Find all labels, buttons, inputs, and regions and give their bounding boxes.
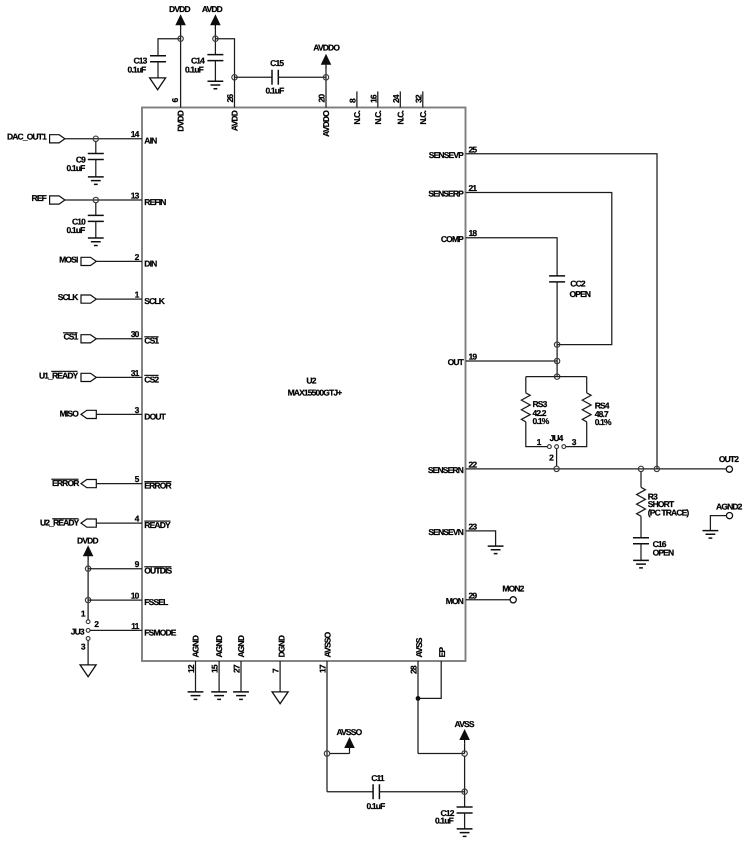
wire DVDD to JU3 pin 1 bbox=[87, 558, 89, 620]
wire REFIN net bbox=[65, 199, 142, 201]
wire AVSSO branch to power flag bbox=[330, 753, 350, 755]
node SCLK bbox=[58, 292, 97, 303]
svg-text:DVDD: DVDD bbox=[176, 110, 186, 131]
pin 25 SENSEVP bbox=[429, 144, 478, 160]
svg-text:AGND: AGND bbox=[190, 635, 200, 657]
junction SENSERN/SENSEVP bbox=[654, 466, 659, 471]
pin 9 OUTDIS bbox=[135, 559, 173, 576]
svg-text:AIN: AIN bbox=[144, 136, 157, 146]
svg-text:SCLK: SCLK bbox=[58, 292, 79, 302]
capacitor C12 bbox=[435, 807, 473, 826]
pin 18 COMP bbox=[441, 228, 477, 244]
svg-text:AGND: AGND bbox=[236, 635, 246, 657]
capacitor C14 bbox=[185, 55, 223, 75]
node CS1 (active low) bbox=[63, 332, 96, 343]
svg-text:N.C.: N.C. bbox=[418, 111, 428, 125]
capacitor C9 bbox=[67, 154, 104, 174]
wire ERROR net bbox=[96, 483, 142, 485]
svg-text:FSSEL: FSSEL bbox=[144, 597, 168, 607]
svg-text:AVSSO: AVSSO bbox=[336, 727, 362, 737]
junction OUT node bbox=[554, 358, 559, 363]
svg-text:25: 25 bbox=[469, 144, 478, 154]
resistor RS4 bbox=[582, 393, 612, 427]
pin 21 SENSERP bbox=[428, 183, 477, 199]
junction REFIN/C10 bbox=[93, 197, 98, 202]
svg-text:FSMODE: FSMODE bbox=[144, 628, 176, 638]
wire FSSEL net bbox=[88, 599, 142, 601]
pin 14 AIN bbox=[131, 129, 157, 146]
pin 30 CS1 bbox=[131, 329, 160, 346]
power flag AVDD (top) bbox=[202, 4, 223, 29]
svg-text:OPEN: OPEN bbox=[570, 289, 591, 299]
junction CC2/SENSERP node bbox=[554, 342, 559, 347]
pin 15 AGND bbox=[210, 635, 224, 692]
resistor RS3 bbox=[521, 393, 549, 426]
wire READY net bbox=[96, 522, 142, 524]
svg-text:CC2: CC2 bbox=[570, 278, 586, 288]
ground (3-bar) AGND2 bbox=[703, 531, 719, 539]
node MISO bbox=[60, 408, 97, 418]
svg-text:0.1%: 0.1% bbox=[595, 417, 612, 427]
svg-text:U2: U2 bbox=[306, 376, 316, 386]
svg-text:19: 19 bbox=[469, 352, 478, 362]
svg-text:MON2: MON2 bbox=[502, 584, 524, 594]
wire SENSERN net bbox=[466, 468, 727, 470]
junction AVSS node bbox=[462, 751, 467, 756]
svg-text:JU3: JU3 bbox=[71, 627, 85, 637]
node MON2 bbox=[502, 584, 524, 603]
ground (3-bar) pin 12 bbox=[188, 692, 204, 700]
wire DVDD net to pin 6 bbox=[180, 27, 182, 108]
junction AIN/C9 bbox=[93, 136, 98, 141]
pin 28 AVSS bbox=[409, 637, 424, 674]
node U1_READY bbox=[39, 370, 96, 381]
svg-text:20: 20 bbox=[317, 94, 327, 103]
svg-text:DIN: DIN bbox=[144, 258, 157, 268]
wire C10 lead bbox=[95, 203, 97, 238]
svg-text:10: 10 bbox=[131, 591, 140, 601]
svg-text:OPEN: OPEN bbox=[653, 547, 674, 557]
pin 11 FSMODE bbox=[131, 621, 177, 638]
ground (triangle) below C13 bbox=[150, 78, 166, 90]
node DAC_OUT1 bbox=[7, 132, 65, 143]
jumper JU4 bbox=[537, 433, 577, 462]
svg-text:DVDD: DVDD bbox=[169, 4, 190, 14]
ground (3-bar) SENSEVN bbox=[488, 546, 504, 554]
svg-text:0.1%: 0.1% bbox=[533, 416, 550, 426]
svg-text:32: 32 bbox=[413, 94, 423, 103]
junction DVDD/C13 bbox=[178, 36, 183, 41]
wire DIN net bbox=[96, 260, 142, 262]
svg-text:16: 16 bbox=[368, 94, 378, 103]
ground (3-bar) below C12 bbox=[457, 829, 473, 837]
svg-text:17: 17 bbox=[318, 664, 328, 673]
svg-text:0.1uF: 0.1uF bbox=[67, 163, 86, 173]
pin 7 DGND bbox=[271, 635, 287, 692]
junction divider top node bbox=[554, 374, 559, 379]
pin 5 ERROR bbox=[135, 474, 172, 491]
svg-text:DVDD: DVDD bbox=[77, 535, 98, 545]
wire AVDDO to pin 20 bbox=[325, 67, 327, 108]
svg-text:(PC TRACE): (PC TRACE) bbox=[648, 508, 690, 518]
wire C15 left lead bbox=[235, 76, 273, 78]
capacitor CC2 bbox=[549, 276, 591, 299]
svg-text:COMP: COMP bbox=[441, 234, 464, 244]
node REF bbox=[32, 193, 65, 204]
junction EP/AVSS (solder dot) bbox=[416, 696, 421, 701]
junction SENSERN/R3 bbox=[638, 466, 643, 471]
svg-text:13: 13 bbox=[131, 190, 140, 200]
svg-text:N.C.: N.C. bbox=[352, 111, 362, 125]
capacitor C15 bbox=[266, 58, 285, 96]
wire OUTDIS net bbox=[88, 568, 142, 570]
junction OUTDIS node bbox=[85, 566, 90, 571]
pin 23 SENSEVN bbox=[428, 521, 477, 537]
junction AVDDO node bbox=[323, 75, 328, 80]
svg-text:AGND2: AGND2 bbox=[716, 501, 743, 511]
junction AVDD/C15 node bbox=[232, 75, 237, 80]
wire SENSEVP net bbox=[466, 154, 657, 469]
pin 19 OUT bbox=[448, 352, 478, 368]
wire AIN net bbox=[65, 138, 142, 140]
svg-text:N.C.: N.C. bbox=[395, 111, 405, 125]
IC U2 MAX15500GTJ+ body bbox=[142, 108, 466, 662]
wire AVSS down to C12 bbox=[464, 756, 466, 807]
wire JU4 pin 2 down bbox=[556, 449, 558, 467]
svg-text:N.C.: N.C. bbox=[373, 111, 383, 125]
svg-text:0.1uF: 0.1uF bbox=[435, 816, 454, 826]
svg-text:OUT2: OUT2 bbox=[719, 454, 739, 464]
ground (3-bar) pin 27 bbox=[233, 692, 249, 700]
svg-text:AVSS: AVSS bbox=[455, 719, 475, 729]
wire JU3 pin 3 to ground bbox=[87, 640, 89, 665]
svg-text:DGND: DGND bbox=[276, 635, 286, 657]
wire C15 right lead to AVDDO node bbox=[278, 76, 326, 78]
svg-text:29: 29 bbox=[469, 590, 478, 600]
svg-text:26: 26 bbox=[225, 94, 235, 103]
svg-text:14: 14 bbox=[131, 129, 140, 139]
wire OUT net bbox=[466, 360, 557, 362]
svg-text:REF: REF bbox=[32, 193, 47, 203]
wire MON net bbox=[466, 599, 510, 601]
svg-text:SENSEVP: SENSEVP bbox=[429, 150, 464, 160]
svg-text:22: 22 bbox=[469, 459, 478, 469]
node U2_READY bbox=[40, 518, 96, 528]
power flag DVDD (left lower) bbox=[77, 535, 98, 560]
wire FSMODE net bbox=[90, 629, 142, 631]
svg-text:0.1uF: 0.1uF bbox=[67, 225, 86, 235]
svg-text:30: 30 bbox=[131, 329, 140, 339]
wire AGND2 to ground bbox=[710, 516, 726, 531]
svg-text:OUT: OUT bbox=[448, 357, 465, 367]
svg-text:SENSERP: SENSERP bbox=[428, 189, 464, 199]
wire SENSEVN net bbox=[466, 531, 496, 546]
wire AVDD to pin 26 bbox=[215, 39, 234, 108]
pin 17 AVSSO bbox=[318, 631, 333, 673]
pin 3 DOUT bbox=[135, 405, 167, 422]
junction AVDD node bbox=[213, 36, 218, 41]
ground (triangle) below JU3 bbox=[80, 665, 96, 677]
svg-text:23: 23 bbox=[469, 521, 478, 531]
wire COMP net to CC2 bbox=[466, 238, 557, 276]
wire CC2 to OUT node bbox=[556, 282, 558, 377]
svg-text:AVDD: AVDD bbox=[202, 4, 223, 14]
svg-text:0.1uF: 0.1uF bbox=[266, 86, 285, 96]
pin 1 SCLK bbox=[135, 290, 166, 307]
pin 29 MON bbox=[446, 590, 478, 606]
power flag AVSSO bbox=[336, 727, 362, 753]
svg-text:18: 18 bbox=[469, 228, 478, 238]
wire AVDD stem into C14 bbox=[214, 27, 216, 55]
ground (triangle) pin 7 bbox=[272, 692, 288, 704]
wire R3 leads bbox=[640, 472, 642, 538]
wire SENSERP net bbox=[466, 193, 612, 345]
pin 12 AGND bbox=[186, 635, 200, 692]
wire C14 to ground bbox=[214, 61, 216, 82]
capacitor C10 bbox=[67, 215, 104, 235]
pin 10 FSSEL bbox=[131, 591, 168, 608]
power flag AVDDO bbox=[313, 42, 340, 68]
svg-text:MAX15500GTJ+: MAX15500GTJ+ bbox=[288, 388, 343, 398]
svg-text:0.1uF: 0.1uF bbox=[128, 64, 147, 74]
svg-text:AVDDO: AVDDO bbox=[313, 42, 340, 52]
ground (3-bar) below C16 bbox=[633, 560, 649, 568]
svg-text:15: 15 bbox=[210, 664, 220, 673]
wire CS1 net bbox=[96, 338, 142, 340]
pin 26 AVDD bbox=[225, 94, 240, 131]
svg-text:C15: C15 bbox=[270, 58, 284, 68]
wire C9 lead bbox=[95, 142, 97, 177]
svg-text:AVDD: AVDD bbox=[230, 110, 240, 131]
ground (3-bar) pin 15 bbox=[211, 692, 227, 700]
pin EP bbox=[437, 647, 447, 658]
junction SENSERN/JU4 bbox=[554, 466, 559, 471]
pin 20 AVDDO bbox=[317, 94, 332, 137]
svg-text:JU4: JU4 bbox=[549, 433, 563, 443]
pin 16 N.C. bbox=[368, 91, 383, 124]
pin 13 REFIN bbox=[131, 190, 167, 207]
capacitor C13 bbox=[128, 56, 166, 75]
wire C11 right lead bbox=[379, 791, 464, 793]
node MOSI bbox=[59, 254, 96, 265]
ground (3-bar) below C9 bbox=[88, 177, 104, 185]
pin 24 N.C. bbox=[391, 91, 406, 124]
svg-text:EP: EP bbox=[437, 647, 447, 658]
power flag DVDD (top) bbox=[169, 4, 190, 29]
wire AVSS net down bbox=[418, 661, 465, 754]
resistor R3 bbox=[637, 487, 690, 517]
pin 2 DIN bbox=[135, 252, 157, 269]
pin 27 AGND bbox=[232, 635, 246, 692]
pin 31 CS2 bbox=[131, 368, 160, 385]
junction AVSSO node bbox=[324, 751, 329, 756]
svg-text:0.1uF: 0.1uF bbox=[367, 801, 386, 811]
node AGND2 bbox=[716, 501, 743, 518]
svg-text:MON: MON bbox=[446, 596, 464, 606]
svg-text:27: 27 bbox=[232, 664, 242, 673]
wire RS3 leads bbox=[526, 377, 548, 447]
svg-text:AVSS: AVSS bbox=[414, 637, 424, 657]
svg-text:AVSSO: AVSSO bbox=[322, 631, 332, 657]
svg-text:0.1uF: 0.1uF bbox=[185, 64, 204, 74]
ground (3-bar) below C14 bbox=[208, 81, 224, 89]
wire EP strap bbox=[418, 661, 441, 698]
pin 4 READY bbox=[135, 514, 171, 531]
pin 6 DVDD bbox=[170, 98, 185, 132]
svg-text:28: 28 bbox=[409, 665, 419, 674]
capacitor C11 bbox=[367, 773, 386, 811]
svg-text:SENSEVN: SENSEVN bbox=[428, 527, 463, 537]
junction C11/C12 node bbox=[462, 789, 467, 794]
wire C13 branch bbox=[158, 39, 181, 78]
svg-text:MOSI: MOSI bbox=[59, 254, 78, 264]
junction FSSEL node bbox=[85, 597, 90, 602]
svg-text:SCLK: SCLK bbox=[144, 296, 165, 306]
svg-text:31: 31 bbox=[131, 368, 140, 378]
node ERROR (active low) bbox=[51, 478, 96, 488]
svg-text:DOUT: DOUT bbox=[144, 411, 166, 421]
wire AVSSO net down bbox=[326, 661, 328, 792]
wire C16 to ground bbox=[640, 544, 642, 561]
pin 22 SENSERN bbox=[428, 459, 478, 475]
svg-text:21: 21 bbox=[469, 183, 478, 193]
ground (3-bar) below C10 bbox=[88, 238, 104, 246]
power flag AVSS bbox=[455, 719, 475, 754]
jumper JU3 bbox=[71, 609, 100, 652]
wire SCLK net bbox=[96, 298, 142, 300]
svg-text:AGND: AGND bbox=[214, 635, 224, 657]
svg-text:MISO: MISO bbox=[60, 408, 80, 418]
svg-text:DAC_OUT1: DAC_OUT1 bbox=[7, 132, 47, 142]
wire C12 to ground bbox=[464, 813, 466, 829]
pin 8 N.C. bbox=[347, 91, 362, 124]
svg-text:C11: C11 bbox=[371, 773, 385, 783]
svg-text:24: 24 bbox=[391, 94, 401, 103]
wire DOUT net bbox=[96, 413, 142, 415]
svg-text:12: 12 bbox=[186, 664, 196, 673]
wire CS2 net bbox=[96, 376, 142, 378]
wire divider top rail bbox=[526, 376, 587, 378]
wire C11 left lead bbox=[327, 791, 373, 793]
capacitor C16 bbox=[633, 538, 674, 558]
svg-text:SENSERN: SENSERN bbox=[428, 465, 464, 475]
pin 32 N.C. bbox=[413, 91, 428, 124]
wire RS4 leads bbox=[566, 377, 587, 447]
node OUT2 bbox=[719, 454, 739, 472]
svg-text:AVDDO: AVDDO bbox=[321, 110, 331, 137]
svg-text:REFIN: REFIN bbox=[144, 197, 166, 207]
svg-text:11: 11 bbox=[131, 621, 139, 631]
